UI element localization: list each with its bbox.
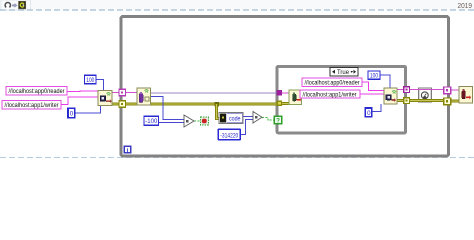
equal1 — [184, 115, 194, 127]
numeric constant -100 — [144, 116, 159, 125]
loop tunnel refnum left — [119, 89, 125, 95]
wire: case tunnel refnum to node4 — [282, 92, 289, 94]
numeric constant 100 in case — [368, 71, 380, 80]
loop tunnel refnum right — [444, 87, 451, 94]
string constant reader outside — [6, 87, 67, 96]
wire: node1 refnum to loop tunnel — [112, 92, 137, 94]
node6 destroy endpoint outside — [459, 86, 473, 103]
svg-text://localhost:app1/writer: //localhost:app1/writer — [303, 91, 357, 98]
stop function — [200, 117, 208, 125]
string constant writer outside — [2, 100, 61, 109]
wire: node3 error to case tunnel — [397, 99, 404, 102]
icon: blue arrow — [12, 3, 17, 7]
node4 destroy endpoint — [289, 90, 302, 105]
wire: 0 to node1 — [75, 105, 101, 113]
svg-text:0: 0 — [70, 111, 74, 118]
svg-text://localhost:app1/writer: //localhost:app1/writer — [5, 102, 59, 109]
wire: -100 to equal1 — [158, 122, 184, 124]
wire: equal2 boolean to case selector — [262, 118, 274, 121]
svg-text:100: 100 — [370, 73, 378, 80]
wire: error main run node2 to case — [150, 103, 278, 106]
svg-text://localhost:app0/reader: //localhost:app0/reader — [305, 80, 360, 87]
string constant reader in case — [302, 78, 362, 87]
wire: error loop tunnel to node6 — [451, 100, 459, 103]
node3 create endpoints (case) — [384, 88, 397, 104]
svg-text:-314220: -314220 — [220, 132, 238, 139]
svg-text:-100: -100 — [145, 118, 158, 125]
icon: circular arrow — [5, 3, 10, 8]
svg-text:2019: 2019 — [458, 1, 473, 10]
wire: node1 error to loop tunnel — [112, 103, 137, 106]
case tunnel refnum right — [404, 87, 410, 93]
icon: dark run square — [19, 1, 26, 9]
case structure border — [277, 66, 406, 133]
wire: 0 to node3 — [372, 104, 381, 112]
wire: error case to loop tunnel — [410, 99, 444, 102]
svg-text:0: 0 — [367, 110, 371, 117]
wire: node3 refnum to case tunnel — [397, 89, 404, 91]
wire: case tunnel error to node4 — [282, 102, 289, 105]
svg-text:True: True — [337, 69, 350, 76]
svg-text:?: ? — [276, 119, 280, 125]
svg-text://localhost:app0/reader: //localhost:app0/reader — [9, 88, 65, 95]
wire: reader string to node3 — [362, 82, 384, 91]
node5 wait — [419, 88, 432, 102]
wire: refnum loop tunnel to node6 — [451, 89, 459, 91]
case tunnel error right — [404, 98, 410, 104]
svg-text:100: 100 — [86, 77, 94, 84]
case selector label — [330, 68, 358, 77]
loop tunnel error left — [119, 101, 125, 107]
wire: 100 to node3 — [380, 75, 390, 88]
unbundle by name: code — [219, 113, 243, 124]
top page-boundary dashed line — [0, 9, 474, 11]
header strip — [0, 0, 474, 10]
snippet header icon box — [1, 0, 31, 10]
numeric constant 0 in case — [365, 108, 372, 117]
wire: writer string to node1 — [61, 97, 98, 105]
wire: 100 to node1 — [96, 80, 104, 91]
case tunnel error left — [277, 101, 283, 107]
numeric constant -314220 — [218, 129, 240, 139]
equal2 — [253, 112, 262, 124]
wire: writer string to node3 — [360, 93, 384, 95]
bottom page-boundary dashed line — [0, 157, 474, 159]
wire junction on error wire — [215, 102, 220, 107]
wire: refnum case to loop tunnel — [410, 89, 444, 91]
string constant writer in case — [300, 90, 360, 99]
svg-text:code: code — [229, 117, 241, 123]
iteration terminal i — [124, 146, 131, 154]
wire: data element from node2 to equal1 — [150, 97, 184, 120]
numeric constant 100 outside — [85, 75, 97, 84]
wire: reader string to node1 — [67, 90, 98, 93]
case tunnel refnum left — [277, 90, 283, 96]
while loop border — [121, 17, 449, 157]
wire: equal1 boolean to stop — [194, 120, 200, 122]
loop tunnel error right — [444, 98, 451, 105]
node2 read element — [137, 88, 151, 105]
wire: refnum node2 to case — [150, 92, 277, 94]
wire: code to equal2 — [243, 116, 253, 118]
numeric constant 0 outside — [68, 108, 75, 117]
wire: -314220 to equal2 — [240, 120, 253, 135]
node1 create endpoints — [98, 90, 112, 105]
case selector tunnel — [274, 116, 281, 124]
wire: error branch down to unbundle — [217, 104, 220, 119]
